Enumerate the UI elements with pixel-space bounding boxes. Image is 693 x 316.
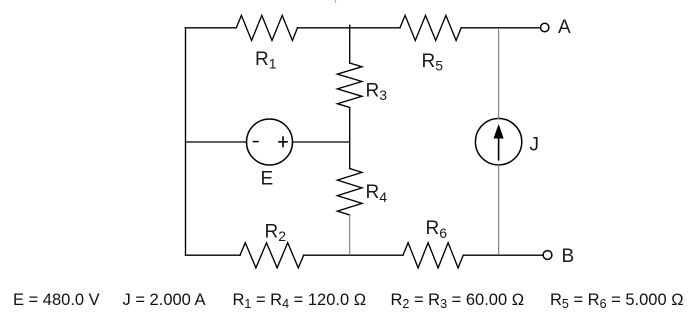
current source arrowhead bbox=[494, 124, 504, 139]
resistor R6 bbox=[403, 243, 463, 268]
svg-text:B: B bbox=[562, 246, 575, 267]
wire gray vertical below J bbox=[498, 165, 500, 255]
voltage source plus sign bbox=[279, 137, 287, 147]
value line E bbox=[0, 290, 693, 292]
voltage source E circle bbox=[247, 119, 293, 165]
svg-text:R2: R2 bbox=[265, 222, 287, 245]
resistor R1 bbox=[236, 15, 297, 40]
wire middle horizontal right of E bbox=[293, 141, 350, 143]
wire node to terminal B bbox=[499, 254, 543, 256]
svg-text:R4: R4 bbox=[366, 182, 388, 205]
svg-text:R5: R5 bbox=[422, 51, 444, 74]
wire top middle segment bbox=[298, 27, 401, 29]
wire top-right segment to node bbox=[461, 27, 498, 29]
wire left vertical rail bbox=[185, 28, 187, 255]
current source J circle bbox=[475, 119, 521, 165]
wire R3 to middle rail bbox=[349, 108, 351, 143]
svg-text:E: E bbox=[261, 169, 274, 190]
current source arrow shaft bbox=[498, 136, 500, 160]
svg-text:R6: R6 bbox=[426, 218, 448, 241]
resistor R5 bbox=[400, 15, 461, 40]
wire bottom-left segment bbox=[186, 254, 241, 256]
wire middle horizontal left of E bbox=[186, 141, 247, 143]
svg-text:J: J bbox=[530, 135, 540, 156]
svg-text:A: A bbox=[558, 17, 571, 38]
resistor R2 bbox=[240, 243, 304, 268]
resistor R4 bbox=[337, 169, 362, 216]
wire node to terminal A bbox=[499, 27, 541, 29]
svg-text:R3: R3 bbox=[366, 80, 388, 103]
wire bottom-right segment to node bbox=[463, 254, 498, 256]
voltage source minus sign bbox=[253, 141, 258, 143]
wire middle branch top stub bbox=[349, 25, 351, 63]
svg-text:R1: R1 bbox=[255, 49, 277, 72]
terminal A bbox=[541, 23, 549, 31]
cropped problem statement text at very top bbox=[30, 0, 671, 4]
terminal B bbox=[543, 251, 552, 260]
wire bottom middle segment bbox=[304, 254, 403, 256]
wire gray vertical below R4 bbox=[349, 215, 351, 255]
wire top-left segment bbox=[186, 27, 237, 29]
wire gray vertical above J bbox=[498, 28, 500, 118]
resistor R3 bbox=[337, 63, 362, 108]
wire middle rail to R4 bbox=[349, 142, 351, 169]
